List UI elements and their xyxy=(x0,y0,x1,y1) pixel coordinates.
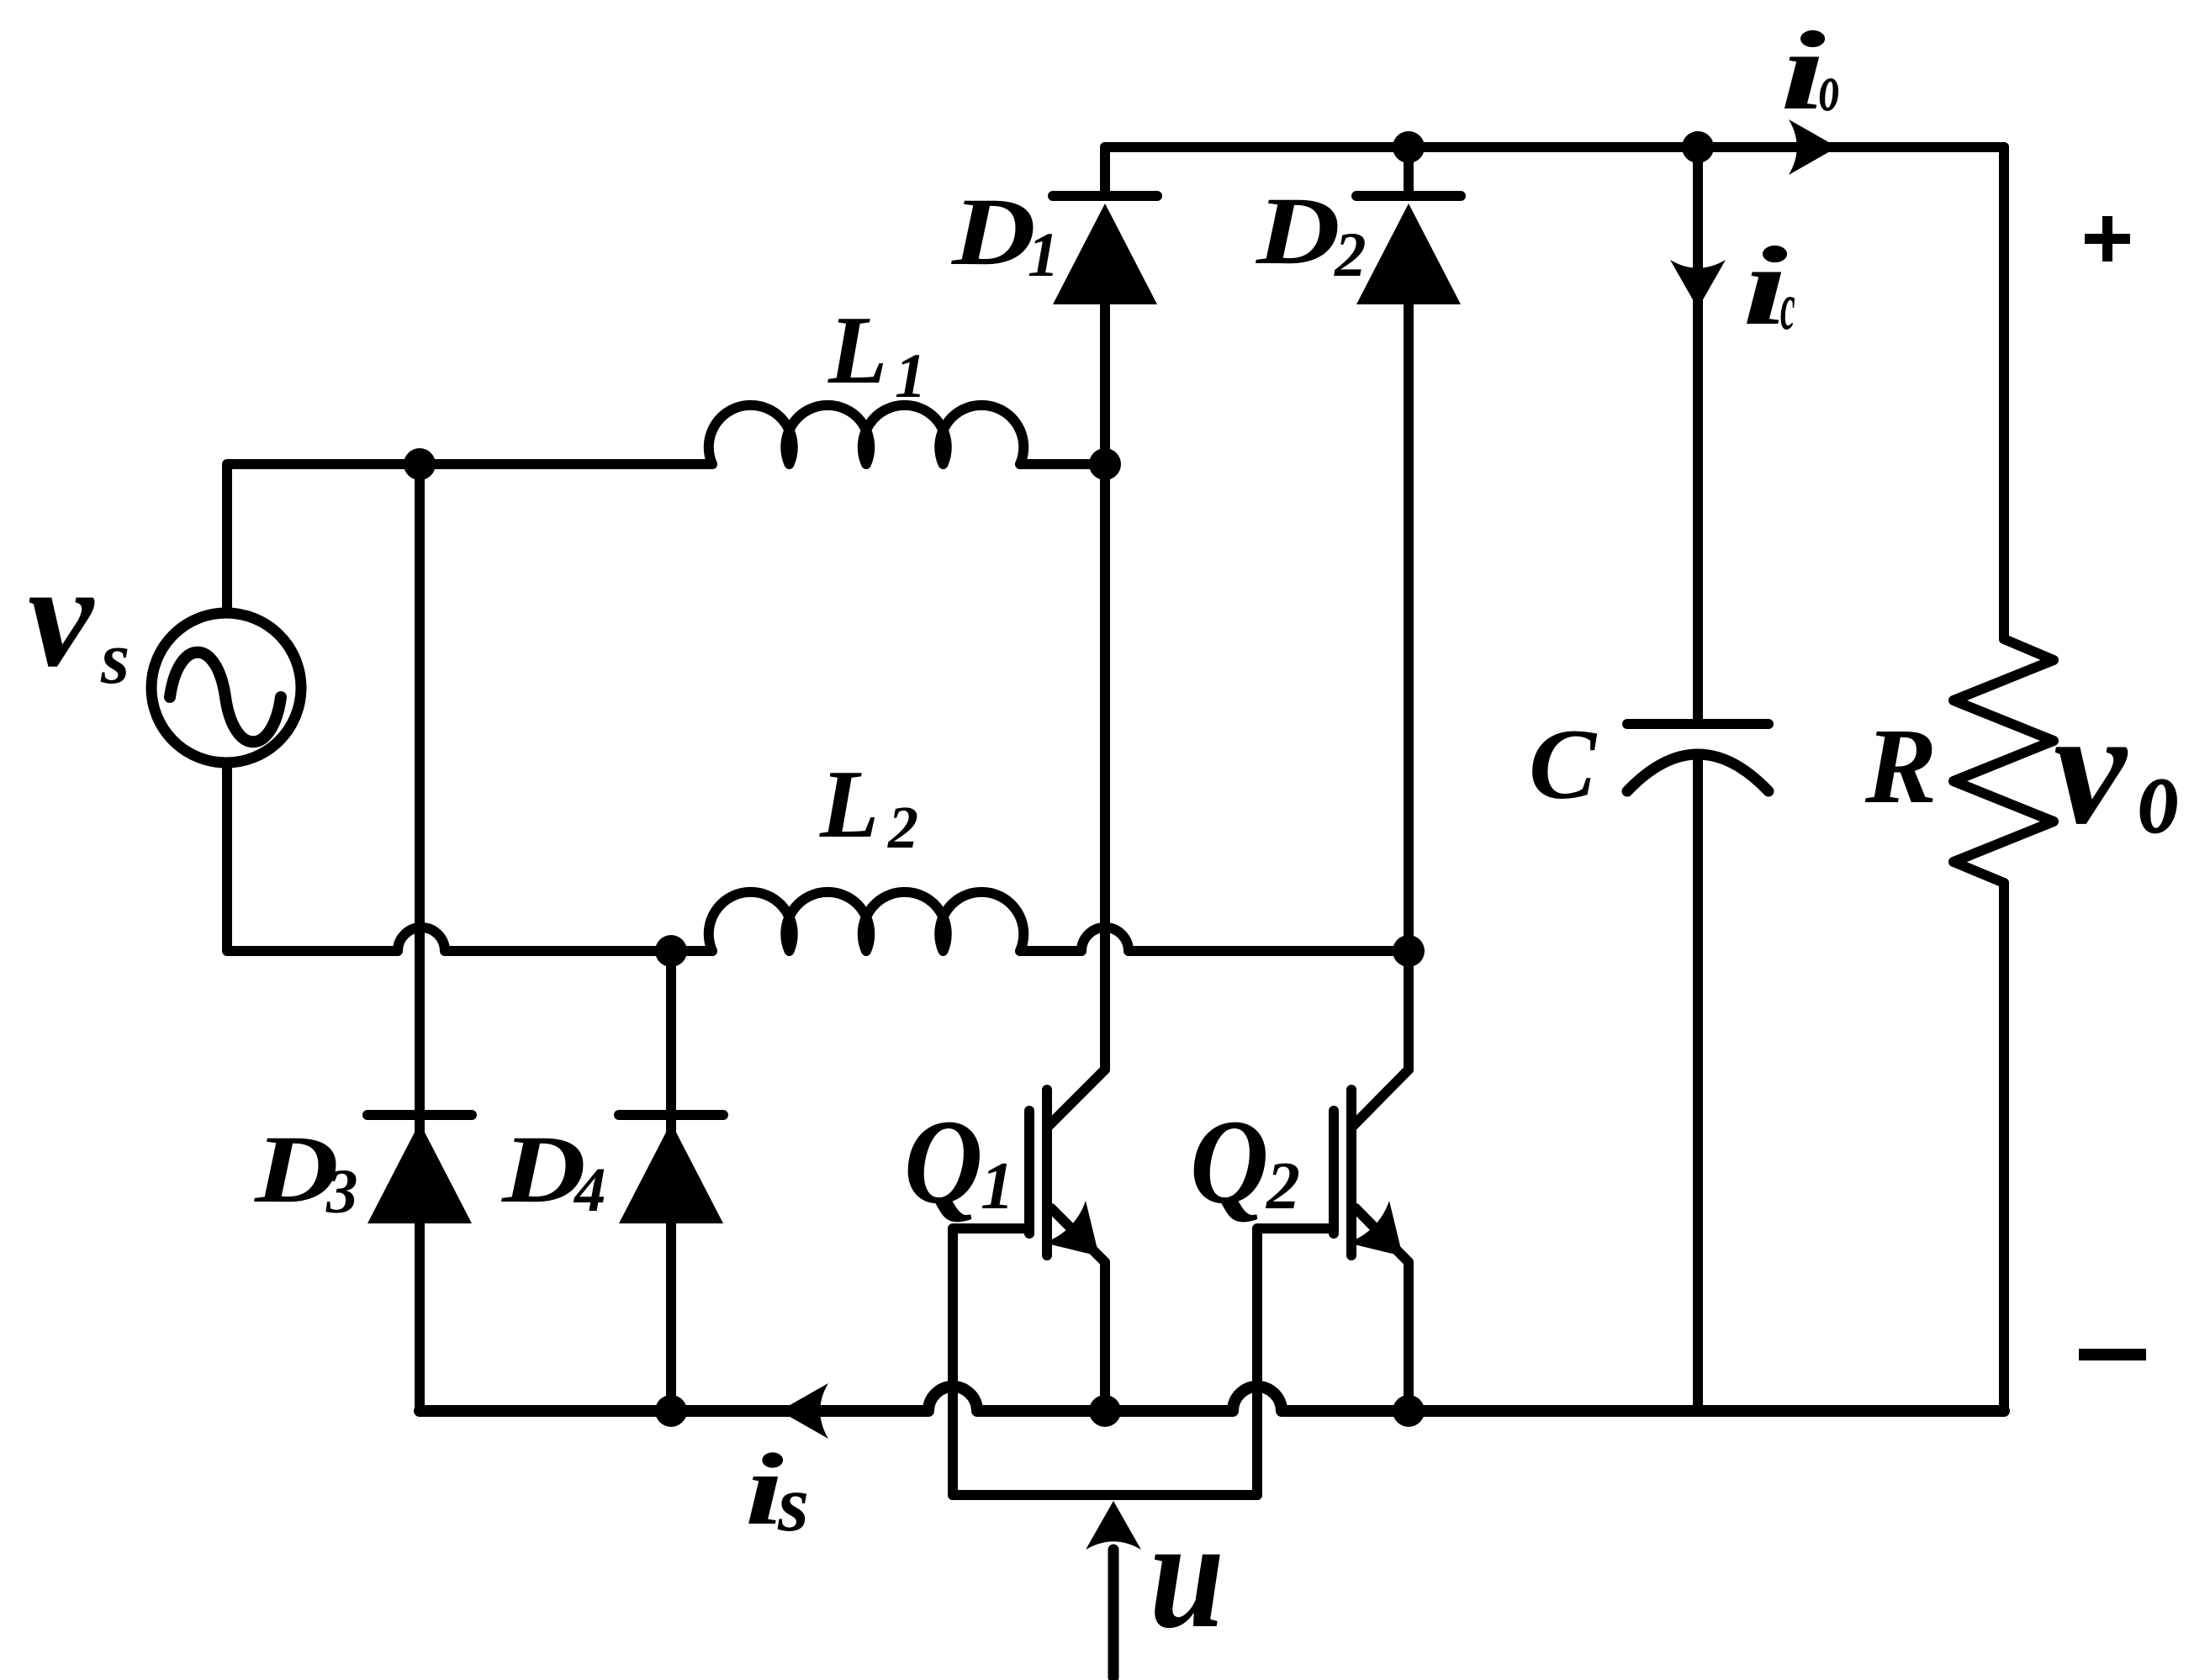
transistor Q2 emitter lead xyxy=(1356,1208,1409,1411)
diode D3 triangle xyxy=(367,1123,472,1223)
arrowhead Q1 emitter xyxy=(1044,1201,1099,1256)
node dot L1-D1 xyxy=(1089,448,1121,480)
svg-text:Q: Q xyxy=(1190,1095,1269,1229)
svg-text:2: 2 xyxy=(1266,1149,1300,1223)
wire vs bottom to L2 xyxy=(227,768,712,951)
diode D3 column wire xyxy=(415,464,425,1411)
wire L2 to D2 (hop over Q1 column) xyxy=(1020,927,1409,951)
arrowhead u xyxy=(1086,1501,1141,1550)
arrowhead Q2 emitter xyxy=(1347,1201,1403,1256)
capacitor C top plate xyxy=(1627,719,1769,729)
diode D1 column wire xyxy=(1100,147,1110,1070)
diode D4 column wire xyxy=(666,951,676,1411)
svg-text:u: u xyxy=(1150,1487,1224,1661)
inductor L2 xyxy=(709,892,1024,951)
node dot D4 bottom xyxy=(655,1395,687,1427)
arrowhead ic xyxy=(1670,260,1726,309)
diode D1 cathode bar xyxy=(1053,191,1157,201)
diode D2 column wire xyxy=(1404,147,1414,1070)
transistor Q1 emitter lead xyxy=(1051,1208,1105,1411)
capacitor C bottom wire xyxy=(1693,757,1703,1411)
transistor Q2 collector lead xyxy=(1354,1070,1409,1125)
wire L1 to D1 node xyxy=(1020,459,1105,469)
node dot Q2 emitter bottom xyxy=(1393,1395,1425,1427)
node dot D2 top bus xyxy=(1393,131,1425,163)
svg-text:v: v xyxy=(2054,677,2128,858)
svg-text:v: v xyxy=(28,534,95,697)
transistor Q1 gate bar xyxy=(1024,1111,1034,1234)
transistor Q1 collector lead xyxy=(1049,1070,1105,1125)
diode D3 cathode bar xyxy=(367,1110,472,1120)
svg-text:o: o xyxy=(1819,51,1840,125)
svg-text:D: D xyxy=(951,179,1036,286)
arrowhead is xyxy=(780,1383,828,1439)
svg-text:3: 3 xyxy=(325,1157,358,1227)
node dot L2-D2 xyxy=(1393,935,1425,967)
arrowhead io xyxy=(1789,119,1837,175)
svg-text:s: s xyxy=(100,618,130,700)
capacitor C top wire xyxy=(1693,147,1703,719)
wire right branch lower xyxy=(1999,883,2009,1411)
svg-text:s: s xyxy=(777,1459,809,1548)
svg-text:C: C xyxy=(1529,708,1598,820)
svg-text:R: R xyxy=(1864,706,1937,826)
svg-text:Q: Q xyxy=(904,1095,983,1229)
svg-text:D: D xyxy=(1256,178,1340,285)
transistor Q2 gate wire xyxy=(1257,1228,1334,1495)
transistor Q1 body bar xyxy=(1042,1090,1052,1255)
inductor L1 xyxy=(709,405,1024,464)
svg-text:1: 1 xyxy=(981,1149,1014,1223)
plus sign xyxy=(2085,216,2130,262)
svg-text:L: L xyxy=(819,751,879,858)
svg-text:1: 1 xyxy=(895,341,927,411)
svg-text:1: 1 xyxy=(1028,220,1060,290)
svg-text:2: 2 xyxy=(1334,220,1367,290)
diode D4 cathode bar xyxy=(619,1110,723,1120)
svg-text:2: 2 xyxy=(887,794,918,861)
wire u gate bus xyxy=(953,1490,1257,1500)
svg-text:D: D xyxy=(501,1117,586,1223)
node dot C top bus xyxy=(1682,131,1714,163)
node dot L2-D4 xyxy=(655,935,687,967)
resistor R xyxy=(1954,639,2054,883)
svg-text:L: L xyxy=(827,297,887,404)
capacitor C curved plate xyxy=(1627,754,1769,791)
diode D2 cathode bar xyxy=(1356,191,1461,201)
source vs circle xyxy=(151,613,301,763)
wire top bus xyxy=(1105,142,2004,152)
wire right branch upper xyxy=(1999,147,2009,639)
svg-text:c: c xyxy=(1780,269,1795,344)
wire bottom bus xyxy=(420,1387,2004,1411)
svg-text:4: 4 xyxy=(573,1155,606,1225)
transistor Q1 gate wire xyxy=(953,1228,1029,1495)
node dot vs-D3 top xyxy=(404,448,436,480)
transistor Q2 body bar xyxy=(1346,1090,1356,1255)
minus sign xyxy=(2079,1349,2146,1360)
source vs sine xyxy=(170,652,281,742)
wire top left (vs to L1) xyxy=(227,464,712,608)
diode D2 triangle xyxy=(1356,203,1461,304)
wire u arrow stem xyxy=(1108,1550,1119,1677)
transistor Q2 gate bar xyxy=(1329,1111,1339,1234)
diode D4 triangle xyxy=(619,1123,723,1223)
diode D1 triangle xyxy=(1053,203,1157,304)
node dot Q1 emitter bottom xyxy=(1089,1395,1121,1427)
svg-text:o: o xyxy=(2139,732,2180,858)
